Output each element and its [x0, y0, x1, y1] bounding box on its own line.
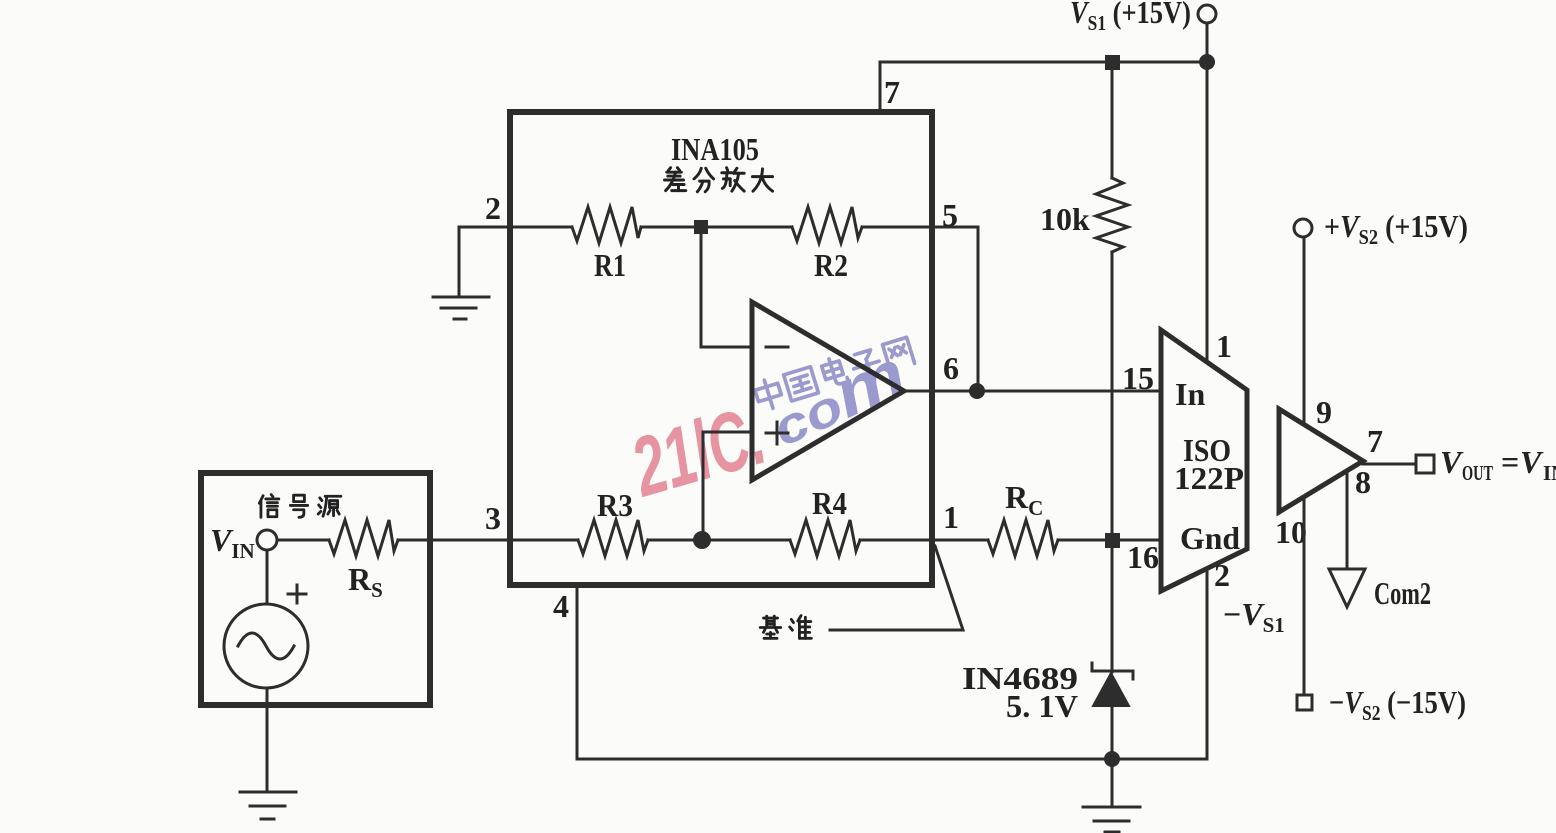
node VS1 top rail wire — [880, 61, 1207, 64]
resistor R3 — [578, 520, 648, 556]
svg-text:−VS2 (−15V): −VS2 (−15V) — [1329, 684, 1466, 725]
svg-text:10: 10 — [1275, 514, 1307, 550]
resistor RC — [988, 520, 1058, 556]
wire +VS2 to buffer pin9 — [1303, 237, 1306, 425]
signal source box — [201, 473, 430, 705]
wire bottom rail — [577, 758, 1207, 761]
Com2 symbol — [1329, 569, 1365, 607]
svg-text:VIN: VIN — [210, 522, 255, 563]
svg-text:VOUT=VIN: VOUT=VIN — [1440, 444, 1556, 485]
wire RC to ISO Gnd — [1058, 539, 1161, 542]
ground (signal source) — [240, 792, 296, 819]
svg-text:2: 2 — [485, 190, 501, 226]
junction Gnd node (square) — [1105, 533, 1120, 548]
wire sine source bottom — [266, 688, 269, 792]
sine source V1 — [224, 604, 308, 688]
svg-text:15: 15 — [1122, 360, 1154, 396]
svg-text:16: 16 — [1127, 539, 1159, 575]
ground (left) — [433, 297, 489, 319]
buffer op-amp A2 — [1279, 409, 1363, 512]
resistor 10k — [1096, 178, 1128, 252]
op-amp A1 — [752, 302, 904, 480]
svg-text:R1: R1 — [594, 247, 626, 283]
wire pin5 down to output node — [977, 227, 980, 391]
svg-text:3: 3 — [485, 500, 501, 536]
wire VS1 terminal to ISO pin1 — [1206, 23, 1209, 361]
wire pin2 — [459, 226, 572, 229]
zener diode IN4689 — [1092, 663, 1133, 706]
wire VIN to RS — [277, 539, 329, 542]
label 基准 — [760, 616, 811, 639]
svg-text:R4: R4 — [812, 485, 847, 521]
wire RS to pin3 — [398, 539, 578, 542]
svg-text:RC: RC — [1005, 479, 1043, 520]
watermark 中国电子网 blue — [753, 335, 915, 411]
svg-text:2: 2 — [1214, 557, 1230, 593]
wire noninverting input — [703, 432, 752, 540]
wire 10k top — [1111, 62, 1114, 178]
junction at VS1 terminal drop (round) — [1199, 54, 1215, 70]
watermark .com blue — [759, 335, 917, 460]
svg-text:INA105: INA105 — [671, 131, 759, 167]
svg-text:VS1 (+15V): VS1 (+15V) — [1070, 0, 1191, 35]
svg-text:5: 5 — [942, 197, 958, 233]
INA105 box — [510, 112, 932, 585]
terminal VOUT (square) — [1416, 455, 1434, 473]
label 信号源 — [259, 495, 341, 518]
plus sign — [288, 585, 306, 603]
junction R3/R4/noninv (round) — [693, 531, 711, 549]
junction output node — [969, 383, 985, 399]
svg-text:R2: R2 — [814, 247, 848, 283]
wire ISO pin2 down — [1206, 569, 1209, 759]
wire R2 to pin5 — [862, 226, 978, 229]
label 差分放大 — [664, 168, 772, 192]
sine wave — [238, 633, 294, 659]
wire annotation 基准 leader — [830, 546, 963, 630]
resistor R1 — [572, 207, 641, 243]
wire pin8 to Com2 — [1346, 473, 1349, 569]
terminal +VS2 — [1294, 219, 1312, 237]
svg-text:RS: RS — [348, 561, 383, 602]
svg-text:−VS1: −VS1 — [1223, 596, 1285, 637]
svg-text:R3: R3 — [597, 487, 633, 523]
svg-text:8: 8 — [1355, 464, 1371, 500]
svg-text:10k: 10k — [1040, 201, 1090, 237]
wire feedback to inverting input — [701, 234, 752, 347]
ground (bottom) — [1083, 807, 1140, 832]
junction bottom rail (round) — [1104, 751, 1120, 767]
wire ground stub bottom — [1111, 759, 1114, 807]
svg-text:122P: 122P — [1174, 460, 1244, 496]
ISO122P U2 — [1161, 330, 1247, 591]
svg-text:7: 7 — [1367, 423, 1383, 459]
svg-text:Gnd: Gnd — [1180, 520, 1240, 556]
op-amp plus — [766, 422, 788, 444]
svg-text:5. 1V: 5. 1V — [1006, 688, 1078, 724]
resistor RS — [329, 520, 398, 556]
wire Gnd node down to zener — [1111, 547, 1114, 672]
resistor R2 — [792, 207, 862, 243]
svg-text:6: 6 — [943, 350, 959, 386]
svg-text:In: In — [1175, 376, 1205, 412]
junction R1/R2/feedback (square) — [694, 220, 708, 234]
wire zener bottom — [1111, 706, 1114, 759]
watermark 21lC pink — [621, 388, 775, 515]
svg-text:9: 9 — [1316, 394, 1332, 430]
wire ground stub left — [458, 227, 461, 297]
wire R4 to RC — [860, 539, 988, 542]
wire pin4 down — [576, 585, 579, 759]
wire R1 to junction — [641, 226, 792, 229]
wire pin7 drop — [879, 62, 882, 112]
terminal VIN — [257, 530, 277, 550]
wire 10k bottom to Gnd node — [1111, 252, 1114, 540]
svg-text:Com2: Com2 — [1374, 575, 1431, 611]
terminal VS1 — [1198, 5, 1216, 23]
wire R3 to junction — [648, 539, 790, 542]
op-amp minus — [766, 346, 788, 349]
svg-text:1: 1 — [943, 499, 959, 535]
wire op-amp output to ISO In — [904, 390, 1161, 393]
wire output — [1363, 463, 1416, 466]
junction on VS1 rail (square) — [1105, 55, 1120, 70]
wire sine source top — [266, 550, 269, 604]
terminal -VS2 (square) — [1297, 695, 1312, 710]
wire buffer pin10 to -VS2 — [1303, 497, 1306, 695]
resistor R4 — [790, 520, 860, 556]
svg-text:4: 4 — [553, 588, 569, 624]
svg-text:+VS2 (+15V): +VS2 (+15V) — [1324, 208, 1468, 249]
svg-text:1: 1 — [1216, 328, 1232, 364]
svg-text:7: 7 — [884, 74, 900, 110]
